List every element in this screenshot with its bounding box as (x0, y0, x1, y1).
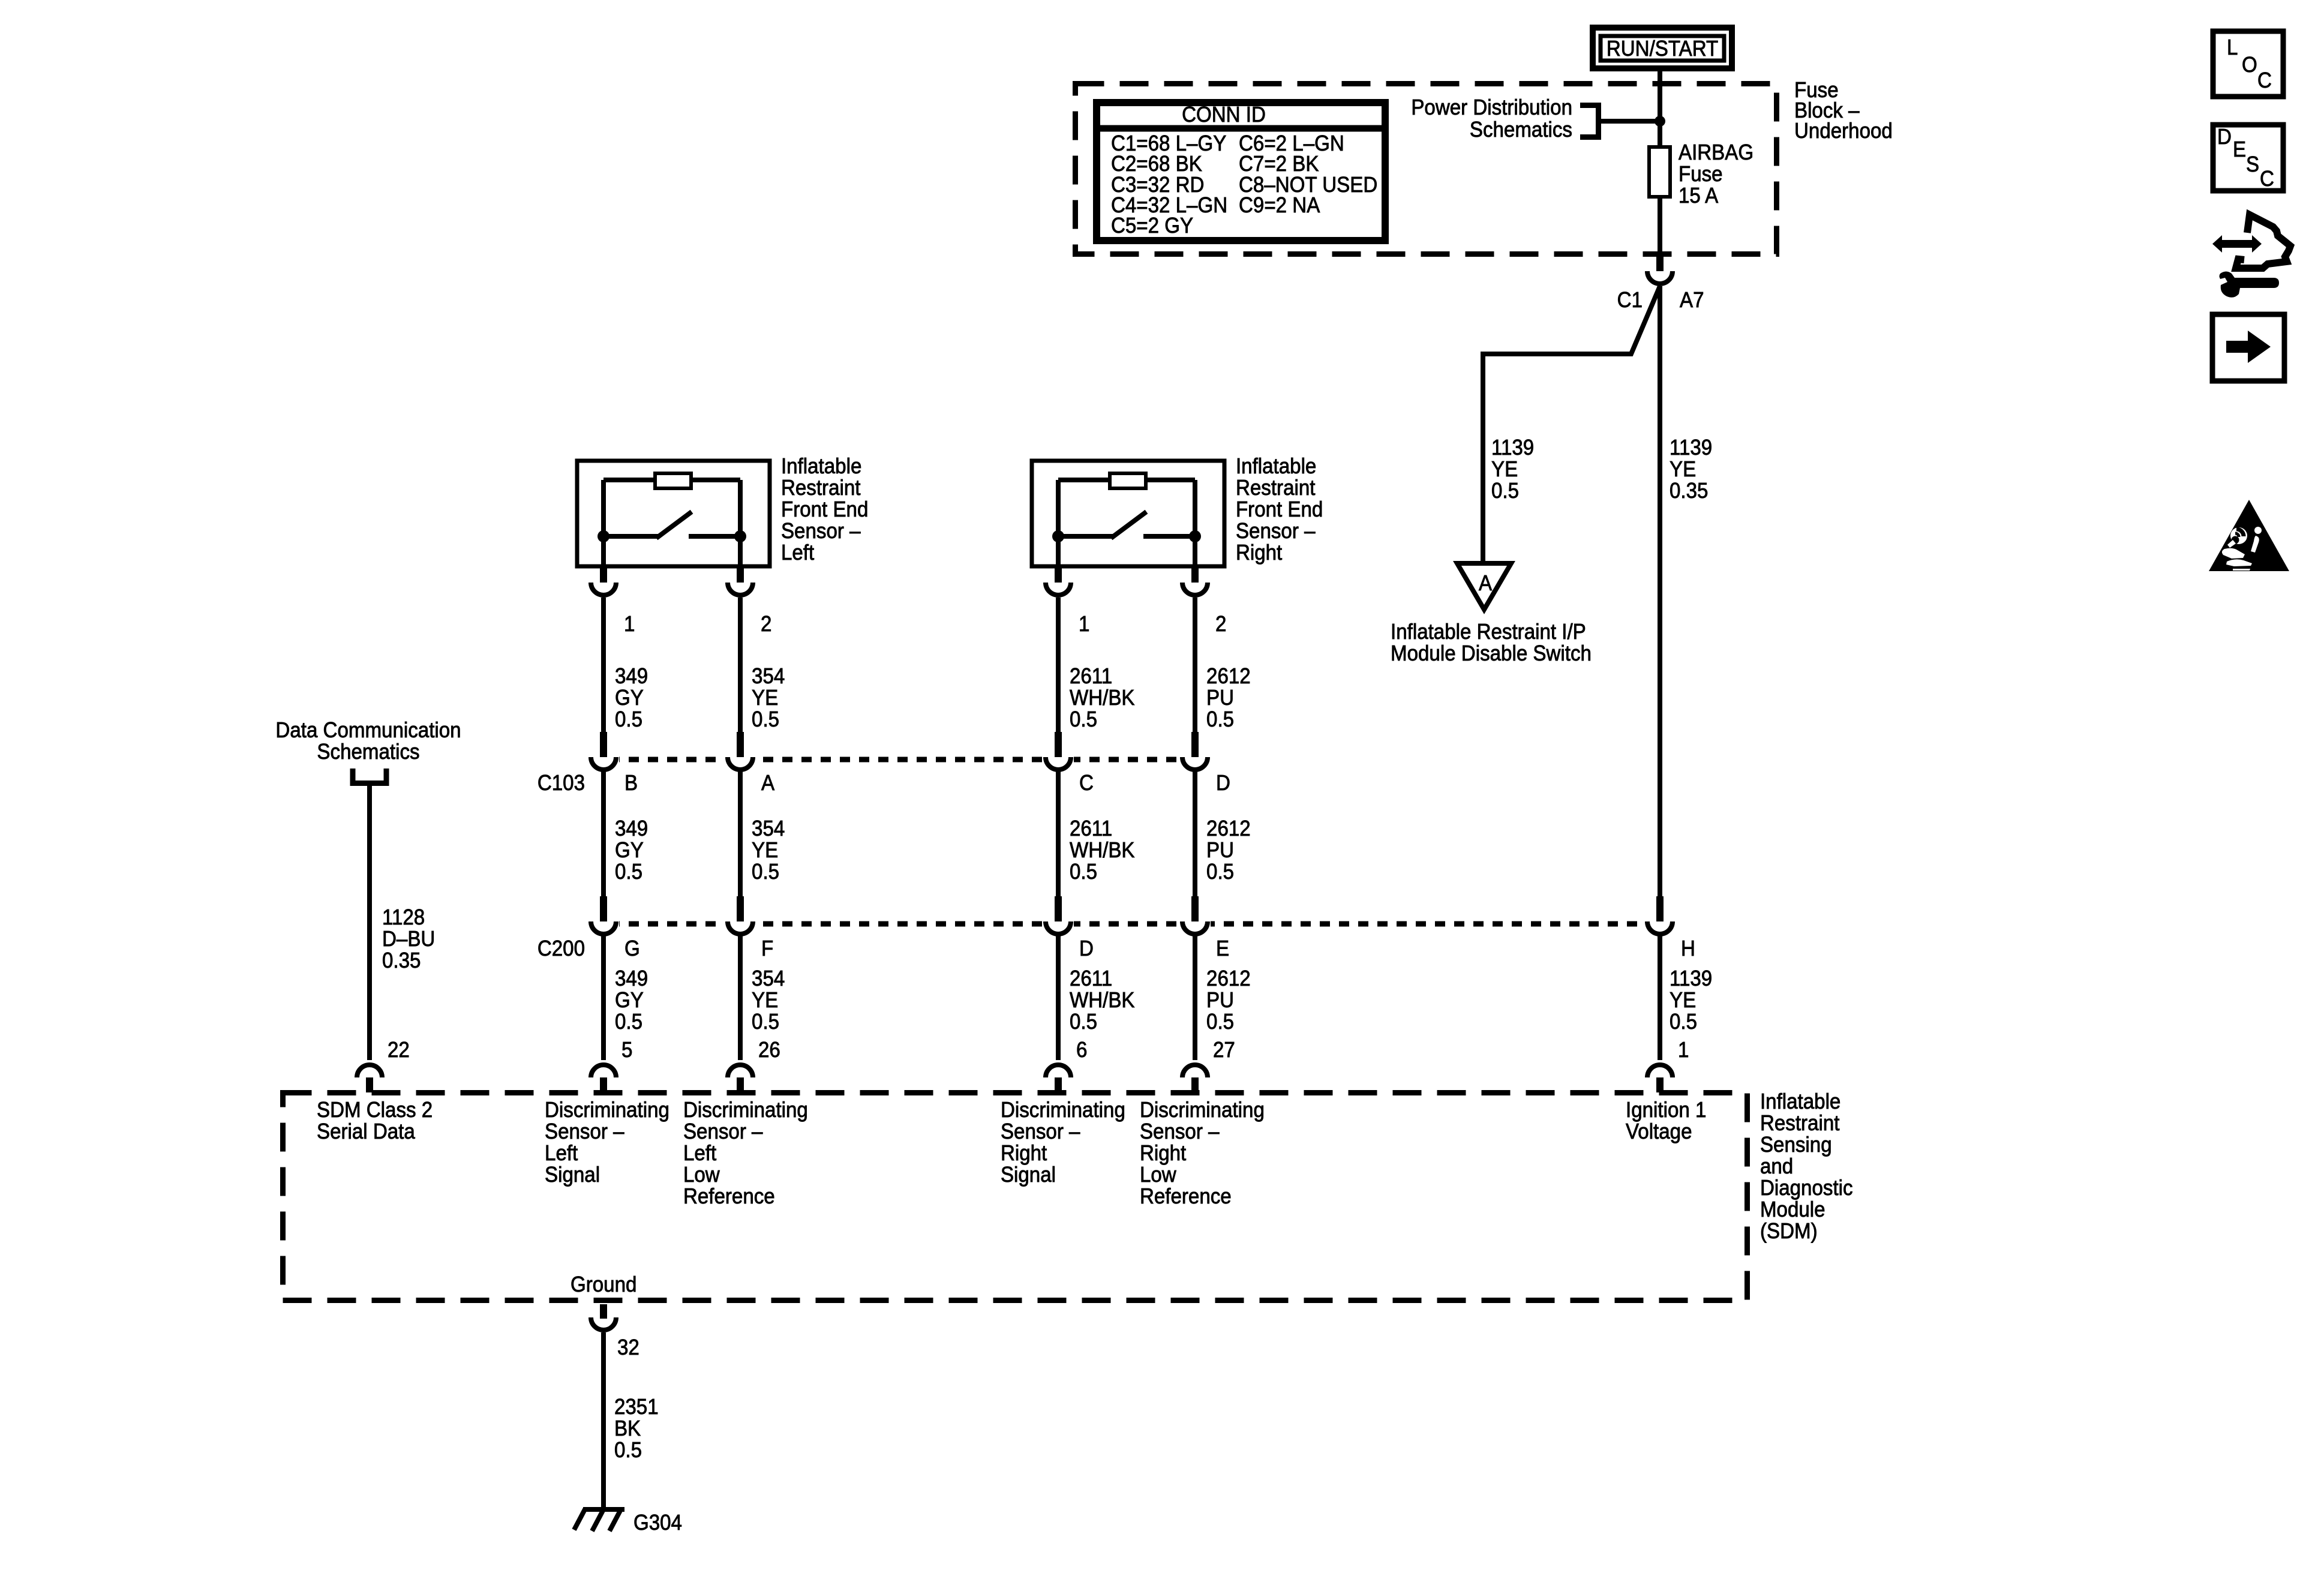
fuse AIRBAG Fuse 15 A (1649, 147, 1670, 197)
svg-text:Power Distribution: Power Distribution (1411, 96, 1572, 120)
label Inflatable Restraint Front End Sensor - Right (1236, 455, 1323, 565)
svg-text:Schematics: Schematics (317, 740, 419, 764)
svg-text:Diagnostic: Diagnostic (1760, 1176, 1853, 1200)
svg-text:Sensor –: Sensor – (545, 1120, 624, 1144)
svg-text:Discriminating: Discriminating (545, 1098, 669, 1122)
svg-text:Fuse: Fuse (1679, 163, 1723, 187)
svg-text:YE: YE (752, 989, 778, 1013)
svg-text:GY: GY (615, 686, 644, 710)
svg-text:0.5: 0.5 (1070, 1010, 1097, 1034)
fuse block - underhood (dashed enclosure) (1076, 84, 1777, 254)
svg-text:C200: C200 (538, 937, 585, 961)
svg-text:349: 349 (615, 665, 648, 689)
svg-text:Front End: Front End (1236, 498, 1323, 522)
svg-text:O: O (2242, 53, 2257, 77)
svg-text:CONN ID: CONN ID (1182, 103, 1266, 127)
wire from bracket to junction (1598, 119, 1658, 124)
connector C200 pin D (1046, 896, 1094, 960)
svg-text:1: 1 (624, 613, 635, 637)
svg-text:1: 1 (1678, 1038, 1689, 1062)
connector SDM pin 22 (357, 1038, 410, 1092)
wire 2611 WH/BK (right signal) C103 to C200 (1058, 772, 1134, 899)
svg-text:Inflatable Restraint I/P: Inflatable Restraint I/P (1391, 620, 1586, 644)
svg-text:G304: G304 (633, 1511, 682, 1535)
svg-text:0.5: 0.5 (752, 860, 779, 884)
connector SDM pin 1 (1647, 1038, 1689, 1092)
label Power Distribution Schematics (off-page reference) (1411, 96, 1572, 142)
label 1139 YE 0.5 (branch) (1491, 436, 1534, 503)
svg-text:Signal: Signal (545, 1163, 600, 1187)
svg-text:L: L (2227, 36, 2238, 60)
svg-text:Left: Left (683, 1142, 717, 1166)
label Data Communication Schematics (off-page reference) (275, 719, 461, 764)
svg-text:Right: Right (1140, 1142, 1187, 1166)
svg-text:0.5: 0.5 (1670, 1010, 1697, 1034)
node A triangle (to disable switch) (1457, 563, 1511, 610)
connector C200 pin F (728, 896, 773, 960)
svg-text:Module Disable Switch: Module Disable Switch (1391, 642, 1592, 666)
svg-text:D: D (1216, 772, 1230, 795)
svg-text:Ground: Ground (571, 1273, 636, 1297)
svg-text:Schematics: Schematics (1470, 118, 1572, 142)
connector pin 1 (sensor lead) (591, 568, 635, 636)
svg-text:0.5: 0.5 (1491, 479, 1519, 503)
label Inflatable Restraint I/P Module Disable Switch (1391, 620, 1592, 666)
svg-text:GY: GY (615, 989, 644, 1013)
connector SDM pin 27 (1182, 1038, 1235, 1092)
svg-text:2351: 2351 (614, 1395, 659, 1419)
svg-text:(SDM): (SDM) (1760, 1220, 1818, 1244)
svg-text:D: D (1079, 937, 1094, 961)
svg-text:YE: YE (1670, 458, 1696, 482)
wire 2611 WH/BK (right signal) C200 to SDM (1058, 936, 1134, 1060)
wire 2611 WH/BK (right signal) sensor to C103 (1058, 598, 1134, 734)
svg-text:Right: Right (1236, 541, 1283, 565)
svg-text:15 A: 15 A (1679, 184, 1718, 208)
label Inflatable Restraint Sensing and Diagnostic Module (SDM) (1760, 1090, 1853, 1244)
svg-text:PU: PU (1206, 989, 1234, 1013)
svg-text:0.5: 0.5 (752, 1010, 779, 1034)
svg-text:WH/BK: WH/BK (1070, 686, 1135, 710)
svg-text:YE: YE (752, 839, 778, 863)
switch contact (sensor) (597, 530, 609, 542)
wire 2612 PU (right low ref) sensor to C103 (1195, 598, 1251, 734)
wire fuse to connector C1 (1658, 197, 1662, 259)
svg-text:0.5: 0.5 (1206, 860, 1234, 884)
svg-text:Inflatable: Inflatable (781, 455, 861, 479)
wire 1139 YE 0.5 C200-H to SDM pin 1 (1660, 936, 1712, 1060)
svg-text:AIRBAG: AIRBAG (1679, 141, 1753, 165)
wire 349 GY (left signal) sensor to C103 (603, 598, 648, 734)
icon LOC box (2213, 31, 2283, 97)
svg-text:A: A (761, 772, 774, 795)
connector pin 2 (sensor lead) (728, 568, 771, 636)
svg-text:F: F (761, 937, 773, 961)
svg-text:Discriminating: Discriminating (683, 1098, 808, 1122)
svg-text:354: 354 (752, 665, 785, 689)
svg-text:GY: GY (615, 839, 644, 863)
svg-text:Restraint: Restraint (781, 476, 861, 500)
svg-text:BK: BK (614, 1417, 641, 1441)
connector C103 (in-line, dashed) (588, 756, 1211, 763)
label Discriminating Sensor - Right Signal (1001, 1098, 1125, 1187)
connector pin 2 (sensor lead) (1182, 568, 1226, 636)
svg-text:Reference: Reference (1140, 1185, 1232, 1209)
svg-text:A7: A7 (1680, 289, 1704, 313)
svg-text:C103: C103 (538, 772, 585, 795)
label 1139 YE 0.35 (1670, 436, 1712, 503)
wire 354 YE (left low ref) sensor to C103 (740, 598, 785, 734)
svg-text:1128: 1128 (382, 906, 425, 930)
svg-text:6: 6 (1076, 1038, 1087, 1062)
svg-text:2: 2 (1215, 613, 1226, 637)
svg-text:B: B (624, 772, 638, 795)
svg-text:Low: Low (683, 1163, 720, 1187)
SDM module box (dashed): Inflatable Restraint Sensing and Diagnostic Module (283, 1093, 1747, 1301)
svg-text:PU: PU (1206, 839, 1234, 863)
node RUN/START (ignition feed box) (1593, 28, 1732, 68)
svg-text:WH/BK: WH/BK (1070, 839, 1135, 863)
svg-text:2: 2 (761, 613, 771, 637)
svg-text:0.5: 0.5 (614, 1439, 642, 1463)
svg-text:D: D (2217, 125, 2232, 149)
svg-text:0.5: 0.5 (615, 1010, 642, 1034)
svg-text:0.5: 0.5 (615, 708, 642, 732)
svg-text:C2=68 BK: C2=68 BK (1111, 152, 1202, 176)
svg-text:C: C (1079, 772, 1094, 795)
svg-text:Voltage: Voltage (1626, 1120, 1692, 1144)
svg-text:22: 22 (388, 1038, 410, 1062)
svg-text:2611: 2611 (1070, 817, 1112, 841)
svg-text:Sensing: Sensing (1760, 1133, 1832, 1157)
icon DESC box (2213, 125, 2283, 191)
svg-text:5: 5 (621, 1038, 632, 1062)
ground G304 (574, 1508, 682, 1535)
connector SDM pin 5 (591, 1038, 632, 1092)
svg-text:Discriminating: Discriminating (1001, 1098, 1125, 1122)
svg-text:Restraint: Restraint (1760, 1112, 1840, 1136)
connector C200 pin E (1182, 896, 1229, 960)
svg-text:1139: 1139 (1491, 436, 1534, 460)
svg-text:27: 27 (1213, 1038, 1235, 1062)
label Ignition 1 Voltage (1626, 1098, 1706, 1144)
wire 354 YE (left low ref) C103 to C200 (740, 772, 785, 899)
label Discriminating Sensor - Left Signal (545, 1098, 669, 1187)
svg-text:Ignition 1: Ignition 1 (1626, 1098, 1706, 1122)
connector C200 pin H (ignition feed) (1647, 896, 1695, 960)
svg-text:E: E (2233, 138, 2246, 162)
label C200 (538, 937, 585, 961)
connector pin 1 (sensor lead) (1046, 568, 1089, 636)
svg-text:Left: Left (781, 541, 815, 565)
svg-text:0.35: 0.35 (1670, 479, 1708, 503)
svg-text:Restraint: Restraint (1236, 476, 1316, 500)
off-page bracket to Power Distribution (1580, 106, 1599, 137)
icon diagnostic (arrows + outline + wrench) (2212, 215, 2290, 298)
label Ground (571, 1273, 636, 1297)
svg-text:26: 26 (758, 1038, 780, 1062)
svg-text:Left: Left (545, 1142, 578, 1166)
svg-text:0.5: 0.5 (752, 708, 779, 732)
svg-text:2612: 2612 (1206, 967, 1251, 991)
svg-text:E: E (1216, 937, 1229, 961)
svg-text:1: 1 (1079, 613, 1089, 637)
label Fuse Block - Underhood (1794, 79, 1893, 143)
sensor Inflatable Restraint Front End Sensor - Right (1032, 461, 1224, 568)
label AIRBAG Fuse 15 A (1679, 141, 1753, 208)
svg-text:1139: 1139 (1670, 436, 1712, 460)
wire 2612 PU (right low ref) C103 to C200 (1195, 772, 1251, 899)
svg-text:H: H (1681, 937, 1695, 961)
wire 1139 YE 0.35 down to C200 H (1658, 286, 1662, 905)
svg-text:Discriminating: Discriminating (1140, 1098, 1265, 1122)
svg-text:WH/BK: WH/BK (1070, 989, 1135, 1013)
connector SDM pin 32 (ground) (591, 1304, 639, 1359)
wire 2351 BK 0.5 to ground (603, 1332, 659, 1509)
svg-text:S: S (2246, 153, 2259, 177)
svg-text:RUN/START: RUN/START (1607, 37, 1718, 61)
svg-text:and: and (1760, 1155, 1793, 1179)
svg-text:Underhood: Underhood (1794, 119, 1893, 143)
wire RUN/START to AIRBAG fuse (1658, 68, 1662, 147)
svg-text:G: G (624, 937, 640, 961)
svg-text:C5=2 GY: C5=2 GY (1111, 214, 1193, 238)
svg-text:C1: C1 (1617, 289, 1643, 313)
svg-text:Sensor –: Sensor – (1001, 1120, 1080, 1144)
svg-text:C: C (2257, 69, 2272, 93)
CONN ID table (1094, 103, 1388, 241)
svg-text:Sensor –: Sensor – (781, 520, 861, 544)
wire 354 YE (left low ref) C200 to SDM (740, 936, 785, 1060)
svg-text:D–BU: D–BU (382, 927, 435, 951)
svg-text:Sensor –: Sensor – (1236, 520, 1316, 544)
wire 1128 D-BU 0.35 to SDM pin 22 (370, 783, 435, 1060)
svg-text:2611: 2611 (1070, 967, 1112, 991)
sensor Inflatable Restraint Front End Sensor - Left (577, 461, 770, 568)
svg-text:0.35: 0.35 (382, 949, 421, 973)
connector C103 pin C (1046, 732, 1094, 795)
label SDM Class 2 Serial Data (317, 1098, 433, 1144)
svg-text:YE: YE (1670, 989, 1696, 1013)
svg-text:C9=2 NA: C9=2 NA (1239, 194, 1320, 218)
svg-text:0.5: 0.5 (1070, 860, 1097, 884)
connector C103 pin D (1182, 732, 1230, 795)
svg-text:Serial Data: Serial Data (317, 1120, 416, 1144)
svg-text:Module: Module (1760, 1198, 1825, 1222)
svg-text:Inflatable: Inflatable (1236, 455, 1316, 479)
svg-text:32: 32 (617, 1336, 639, 1360)
wire branch to disable switch (1483, 286, 1660, 566)
connector SDM pin 6 (1046, 1038, 1087, 1092)
svg-text:Low: Low (1140, 1163, 1177, 1187)
svg-text:YE: YE (752, 686, 778, 710)
svg-text:2611: 2611 (1070, 665, 1112, 689)
junction dot (1655, 116, 1665, 127)
svg-text:C: C (2260, 167, 2274, 191)
connector C1 pin A7 (fuse block output) (1617, 257, 1704, 312)
svg-text:1139: 1139 (1670, 967, 1712, 991)
svg-text:A: A (1479, 572, 1492, 596)
svg-text:Right: Right (1001, 1142, 1047, 1166)
off-page bracket to Data Communication (353, 769, 386, 784)
resistor (bias) inside sensor (603, 478, 655, 482)
connector C103 pin A (728, 732, 774, 795)
wire 2612 PU (right low ref) C200 to SDM (1195, 936, 1251, 1060)
svg-text:0.5: 0.5 (1206, 1010, 1234, 1034)
connector C200 pin G (591, 896, 640, 960)
icon forward arrow box (2212, 314, 2284, 381)
resistor (bias) inside sensor (1058, 478, 1110, 482)
connector SDM pin 26 (728, 1038, 780, 1092)
svg-text:Front End: Front End (781, 498, 868, 522)
svg-text:Inflatable: Inflatable (1760, 1090, 1840, 1114)
label Discriminating Sensor - Right Low Reference (1140, 1098, 1265, 1209)
label Inflatable Restraint Front End Sensor - Left (781, 455, 868, 565)
svg-text:354: 354 (752, 817, 785, 841)
svg-text:C7=2 BK: C7=2 BK (1239, 152, 1319, 176)
svg-text:0.5: 0.5 (1206, 708, 1234, 732)
svg-text:PU: PU (1206, 686, 1234, 710)
svg-text:Data Communication: Data Communication (275, 719, 461, 743)
svg-text:SDM Class 2: SDM Class 2 (317, 1098, 433, 1122)
svg-text:YE: YE (1491, 458, 1518, 482)
svg-text:Reference: Reference (683, 1185, 775, 1209)
svg-text:0.5: 0.5 (1070, 708, 1097, 732)
svg-text:354: 354 (752, 967, 785, 991)
svg-text:2612: 2612 (1206, 665, 1251, 689)
icon SIR airbag warning triangle (2209, 500, 2289, 571)
svg-text:0.5: 0.5 (615, 860, 642, 884)
wire 349 GY (left signal) C200 to SDM (603, 936, 648, 1060)
connector C103 pin B (591, 732, 638, 795)
svg-text:349: 349 (615, 817, 648, 841)
svg-text:Sensor –: Sensor – (683, 1120, 763, 1144)
connector C200 (in-line, dashed) (588, 920, 1676, 927)
wire 349 GY (left signal) C103 to C200 (603, 772, 648, 899)
svg-text:2612: 2612 (1206, 817, 1251, 841)
label Discriminating Sensor - Left Low Reference (683, 1098, 808, 1209)
svg-text:Signal: Signal (1001, 1163, 1056, 1187)
svg-text:Sensor –: Sensor – (1140, 1120, 1220, 1144)
switch contact (sensor) (1052, 530, 1064, 542)
label C103 (538, 772, 585, 795)
svg-text:349: 349 (615, 967, 648, 991)
